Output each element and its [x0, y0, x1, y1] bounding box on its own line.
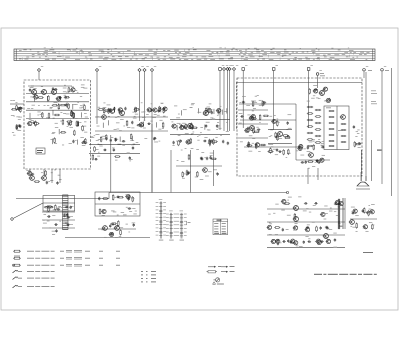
psu value label	[65, 222, 68, 225]
transistor Q11	[216, 109, 221, 113]
amp value label	[313, 204, 316, 207]
stage2 wire	[181, 110, 183, 115]
stage1 wire	[119, 136, 121, 141]
tuner value label	[85, 116, 88, 119]
amp value label	[293, 229, 297, 232]
resistor R64	[197, 171, 199, 177]
tuner-mid value label	[52, 138, 55, 141]
tuner value label	[80, 104, 83, 107]
tuner value label	[66, 91, 68, 94]
below-box-left value label	[41, 171, 43, 174]
capacitor C20	[124, 107, 126, 111]
right-of-box value label	[357, 132, 360, 135]
runit2 value label	[277, 121, 280, 124]
stage2 value label	[198, 134, 200, 137]
tuner value label	[69, 126, 73, 129]
stage1-under value label	[94, 134, 96, 137]
resistor R116	[368, 210, 370, 216]
capacitor C4	[54, 88, 58, 90]
driver value label	[110, 222, 114, 225]
stage2 wire	[218, 109, 220, 114]
tone value label	[363, 227, 366, 230]
amp value label	[312, 221, 315, 224]
stage1 value label	[156, 110, 158, 113]
capacitor C109	[287, 239, 289, 243]
transistor Q101	[31, 90, 37, 95]
connector P8	[226, 65, 232, 131]
capacitor C39	[122, 140, 126, 142]
stage1 value label	[141, 121, 143, 124]
capacitor C93	[70, 206, 72, 210]
transistor Q8	[138, 123, 143, 127]
amp value label	[309, 241, 311, 244]
capacitor C3	[52, 87, 54, 91]
amp value label	[273, 242, 275, 245]
resistor R8	[38, 97, 44, 99]
capacitor C24	[131, 121, 133, 125]
resistor R19	[77, 121, 79, 127]
tuner value label	[64, 94, 66, 97]
runit-bottom value label	[320, 144, 322, 147]
connector P15	[363, 66, 369, 78]
tone value label	[372, 224, 374, 227]
psu value label	[43, 213, 46, 216]
resistor R45	[134, 109, 140, 111]
stage2 value label	[224, 110, 227, 113]
capacitor C36	[110, 139, 112, 143]
stage2-under value label	[188, 171, 190, 174]
tone value label	[351, 210, 355, 213]
tuner value label	[60, 100, 62, 103]
stage2 value label	[179, 139, 181, 142]
stage1 value label	[150, 120, 152, 123]
transistor Q112	[308, 153, 314, 158]
voltage table box	[213, 219, 228, 235]
connector P3	[138, 66, 144, 121]
amp wire	[267, 234, 345, 236]
amp value label	[333, 246, 337, 249]
resistor R104	[111, 223, 117, 225]
transistor Q108	[202, 168, 208, 173]
tuner-right-col value label	[79, 121, 81, 124]
tuner value label	[29, 118, 32, 121]
wire mid drops	[111, 135, 214, 193]
transistor Q25	[298, 145, 303, 149]
runit1 value label	[253, 107, 256, 110]
stage2-under value label	[213, 169, 217, 172]
stage1 value label	[122, 144, 125, 147]
resistor R5	[58, 104, 60, 110]
resistor R70	[262, 100, 264, 106]
resistor R81	[277, 135, 279, 141]
connector P12	[272, 65, 278, 130]
stage1 wire	[118, 108, 120, 113]
amp value label	[339, 225, 342, 228]
tuner wire	[81, 112, 83, 117]
stage1 wire	[110, 108, 112, 113]
resistor R77	[246, 145, 252, 147]
stage2 wire	[226, 108, 228, 113]
amp value label	[330, 207, 332, 210]
stage1 value label	[130, 139, 134, 142]
stage2 value label	[186, 128, 188, 131]
capacitor C28	[162, 108, 166, 110]
transistor Q2	[27, 122, 32, 126]
stage1 value label	[117, 128, 120, 131]
resistor R59	[209, 139, 211, 145]
q14area value label	[313, 94, 315, 97]
resistor R48	[103, 108, 105, 114]
capacitor C65	[240, 115, 244, 117]
resistor R105	[120, 229, 122, 235]
capacitor C8	[68, 122, 70, 126]
switch column S1	[156, 199, 166, 240]
capacitor C17	[18, 124, 20, 128]
connector P5	[150, 66, 156, 192]
tuner value label	[84, 112, 87, 115]
stage2 value label	[218, 125, 220, 128]
tuner wire	[26, 101, 89, 103]
stage1 wire	[160, 107, 162, 112]
capacitor C35	[103, 149, 107, 151]
regulator value label	[123, 214, 127, 217]
resistor R9	[72, 112, 74, 118]
capacitor C87	[66, 213, 68, 217]
q14area value label	[316, 97, 319, 100]
stage2 value label	[171, 121, 173, 124]
tuner value label	[84, 121, 86, 124]
switch bracket label	[187, 221, 191, 225]
stage2 value label	[218, 127, 221, 130]
tuner value label	[30, 96, 33, 99]
tuner value label	[58, 99, 60, 102]
tuner wire	[26, 118, 89, 120]
stage2 value label	[179, 123, 182, 126]
transistor Q29	[101, 209, 106, 213]
resistor R40	[104, 110, 110, 112]
tuner value label	[31, 119, 34, 122]
capacitor C78	[321, 146, 325, 148]
capacitor C117	[306, 226, 310, 228]
capacitor C51	[203, 140, 207, 142]
switch column S2	[166, 211, 176, 241]
stage1 value label	[98, 106, 100, 109]
stage2-under value label	[201, 151, 204, 154]
psu wire	[42, 211, 75, 213]
regulator value label	[135, 210, 137, 213]
transformer T1	[63, 195, 69, 230]
wire x152 drop	[151, 124, 153, 193]
tuner value label	[60, 120, 62, 123]
transistor Q34	[338, 202, 343, 206]
capacitor C91	[67, 216, 71, 218]
tuner-mid value label	[55, 126, 58, 129]
tuner value label	[44, 104, 46, 107]
runit2 value label	[287, 152, 290, 155]
transistor Q3	[56, 97, 61, 101]
resistor R103	[102, 198, 108, 200]
tuner value label	[30, 86, 34, 89]
stage1 value label	[159, 108, 163, 111]
capacitor C69	[278, 151, 282, 153]
stage1 wire	[95, 130, 168, 132]
stage2 value label	[212, 118, 215, 121]
stage2 wire	[170, 118, 230, 120]
amp value label	[275, 233, 278, 236]
psu value label	[47, 220, 50, 223]
resistor R90	[307, 161, 313, 163]
tuner value label	[33, 87, 36, 90]
amp value label	[329, 228, 332, 231]
tuner-mid value label	[54, 142, 57, 145]
resistor R115	[356, 223, 358, 229]
stage1-under value label	[91, 135, 93, 138]
driver value label	[104, 228, 106, 231]
regulator value label	[129, 196, 131, 199]
resistor R68	[253, 127, 255, 133]
resistor R23	[71, 110, 73, 116]
legend row 4	[13, 270, 55, 273]
transistor Q5	[109, 109, 114, 113]
runit1 value label	[257, 94, 259, 97]
amp value label	[288, 196, 292, 199]
resistor R46	[130, 133, 132, 139]
capacitor C72	[314, 88, 318, 90]
runit1 value label	[255, 95, 257, 98]
runit2 value label	[286, 128, 288, 131]
stage1 value label	[151, 103, 153, 106]
resistor R31	[11, 108, 17, 110]
runit1 value label	[252, 110, 254, 113]
runit2 value label	[274, 114, 276, 117]
stage1 wire	[114, 107, 116, 112]
tuner value label	[67, 104, 69, 107]
runit1 value label	[239, 112, 243, 115]
stage1-under value label	[127, 152, 130, 155]
transistor Q48	[362, 225, 367, 229]
wire speaker feeds	[361, 140, 371, 181]
amp value label	[296, 245, 299, 248]
stage2 value label	[209, 103, 212, 106]
resistor R15	[84, 104, 86, 110]
stage2 value label	[174, 105, 177, 108]
runit2 value label	[270, 134, 272, 137]
stage2 value label	[208, 129, 211, 132]
transistor Q45	[320, 212, 325, 216]
transistor Q9	[152, 108, 157, 112]
transistor Q36	[267, 225, 272, 229]
capacitor C71	[328, 98, 330, 102]
below-box-left value label	[26, 169, 30, 172]
resistor R99	[132, 196, 134, 202]
stage2 value label	[191, 104, 194, 107]
tuner value label	[83, 87, 87, 90]
transistor Q105	[101, 115, 106, 120]
regulator value label	[121, 211, 124, 214]
stage1 value label	[103, 102, 105, 105]
left-edge value label	[10, 99, 12, 102]
psu value label	[46, 211, 50, 214]
stage2 value label	[208, 109, 212, 112]
capacitor C50	[183, 126, 187, 128]
transistor Q117	[293, 206, 299, 211]
connector P1	[37, 66, 43, 80]
resistor R20	[52, 104, 58, 106]
stage1 value label	[160, 102, 163, 105]
capacitor C54	[216, 172, 218, 176]
right-of-box value label	[357, 129, 359, 132]
transistor Q12	[206, 108, 211, 112]
stage1-under value label	[115, 159, 117, 162]
voltage list	[141, 271, 156, 282]
amp value label	[325, 236, 328, 239]
capacitor C94	[65, 206, 69, 208]
tuner value label	[27, 107, 30, 110]
psu value label	[65, 212, 67, 215]
resistor R21	[42, 112, 44, 118]
tuner-mid value label	[75, 139, 77, 142]
resistor R16	[64, 96, 70, 98]
tuner-mid wire	[51, 139, 53, 144]
capacitor C58	[209, 156, 211, 160]
wire tuner top rail	[28, 85, 72, 87]
runit2 value label	[270, 129, 273, 132]
tuner-mid value label	[69, 142, 72, 145]
capacitor C26	[153, 137, 155, 141]
left-edge value label	[18, 118, 21, 121]
stage1-under value label	[116, 138, 118, 141]
resistor R58	[213, 139, 215, 145]
transistor Q104	[119, 111, 125, 116]
stage2 value label	[220, 105, 222, 108]
resistor R85	[283, 149, 285, 155]
stage1 value label	[105, 110, 108, 113]
runit-bottom value label	[296, 150, 298, 153]
stage2 value label	[217, 114, 219, 117]
capacitor C110	[282, 240, 286, 242]
amp value label	[329, 210, 332, 213]
stage2 value label	[215, 136, 217, 139]
runit-bottom value label	[318, 138, 320, 141]
tuner value label	[41, 90, 44, 93]
stage1-under value label	[99, 145, 102, 148]
amp value label	[287, 199, 289, 202]
stage2 value label	[178, 113, 180, 116]
amp value label	[275, 203, 278, 206]
runit-bottom value label	[307, 150, 311, 153]
tuner value label	[72, 103, 75, 106]
tuner value label	[37, 114, 39, 117]
runit-bottom value label	[322, 140, 325, 143]
resistor R43	[126, 120, 128, 126]
capacitor C82	[46, 181, 48, 185]
resistor R17	[70, 111, 72, 117]
driver wire	[98, 228, 136, 230]
runit1 value label	[249, 134, 253, 137]
dashed unit box (IF/AF)	[237, 78, 362, 176]
stage1 value label	[143, 127, 146, 130]
transistor Q111	[319, 91, 325, 96]
capacitor C12	[82, 140, 86, 142]
psu value label	[48, 206, 50, 209]
tuner value label	[81, 84, 85, 87]
tuner value label	[79, 107, 82, 110]
transistor Q38	[293, 226, 298, 230]
stage2-under value label	[208, 170, 212, 173]
stage2-under value label	[200, 178, 204, 181]
stage2 value label	[203, 113, 206, 116]
resistor R35	[100, 136, 102, 142]
stage1 value label	[103, 138, 106, 141]
transistor Q15	[171, 124, 176, 128]
legend row 2	[13, 256, 120, 259]
stage1 value label	[115, 116, 117, 119]
runit1 wire	[238, 109, 268, 111]
connector labels	[320, 70, 389, 104]
runit1 value label	[252, 142, 254, 145]
stage2 wire	[198, 108, 200, 113]
stage1 value label	[116, 122, 120, 125]
resistor R75	[259, 114, 261, 120]
amp value label	[324, 205, 327, 208]
tuner wire	[33, 96, 35, 101]
transistor Q40	[305, 228, 310, 232]
amp value label	[294, 241, 297, 244]
connector P2	[95, 66, 101, 124]
tuner value label	[32, 104, 35, 107]
tuner value label	[33, 88, 36, 91]
q14area value label	[318, 97, 321, 100]
resistor R96	[48, 206, 50, 212]
capacitor C21	[150, 108, 152, 112]
resistor R11	[35, 120, 37, 126]
capacitor C104	[334, 238, 336, 242]
stage2 value label	[207, 106, 210, 109]
runit2 value label	[271, 145, 273, 148]
stage1 value label	[154, 113, 157, 116]
tuner value label	[40, 113, 43, 116]
stage1 wire	[131, 136, 133, 141]
capacitor C115	[314, 202, 318, 204]
transistor Q109	[249, 126, 255, 131]
resistor R22	[73, 112, 75, 118]
tone value label	[369, 221, 372, 224]
stage2 value label	[191, 147, 194, 150]
wire crossing dashed bottom	[308, 168, 318, 184]
resistor R55	[191, 127, 197, 129]
transistor Q21	[271, 119, 276, 123]
capacitor C70	[286, 121, 288, 125]
transistor Q118	[293, 217, 299, 222]
capacitor C119	[366, 211, 370, 213]
capacitor C89	[66, 224, 70, 226]
runit1 value label	[252, 137, 255, 140]
stage2 value label	[217, 112, 220, 115]
capacitor C30	[153, 137, 157, 139]
stage2-under value label	[210, 154, 213, 157]
transistor Q28	[27, 171, 32, 175]
stage2 wire	[204, 125, 206, 130]
tuner-right-col value label	[82, 129, 85, 132]
stage2 value label	[185, 147, 187, 150]
stage1 value label	[97, 115, 99, 118]
stage2 wire	[213, 109, 215, 114]
capacitor C34	[115, 138, 117, 142]
stage1 value label	[143, 111, 145, 114]
below-box-left value label	[51, 171, 53, 174]
loudspeaker	[356, 172, 370, 189]
tuner value label	[38, 104, 40, 107]
